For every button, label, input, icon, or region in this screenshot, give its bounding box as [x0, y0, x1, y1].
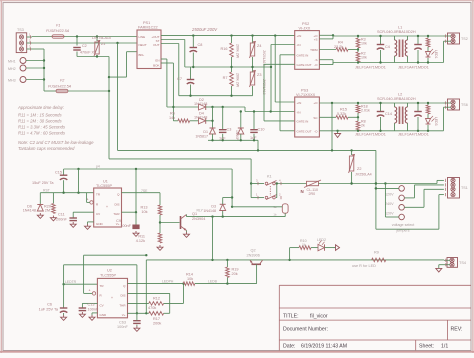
svg-text:2k: 2k [361, 124, 365, 128]
capacitor C10 [253, 112, 255, 130]
resistor R20 [52, 193, 54, 204]
ground C11 [72, 222, 74, 224]
svg-text:TRIM: TRIM [310, 48, 318, 52]
wire PS2 -S -O [319, 59, 333, 61]
svg-text:10k: 10k [361, 56, 367, 60]
svg-text:470nF X: 470nF X [80, 51, 94, 55]
svg-text:C15: C15 [55, 171, 62, 175]
wire CL-110 to voltage select [319, 183, 438, 185]
svg-text:C13: C13 [88, 303, 95, 307]
svg-text:GATE OUT: GATE OUT [297, 63, 312, 67]
wire bus1 line to relay [118, 149, 376, 151]
IC U2 TLC555P [97, 278, 127, 317]
wire TS3 pin3 down [32, 48, 44, 50]
svg-text:MH3: MH3 [8, 79, 16, 83]
svg-text:-S: -S [315, 58, 318, 62]
svg-text:2R0: 2R0 [309, 192, 316, 196]
diode D6 [39, 193, 41, 205]
svg-text:fil_vicor: fil_vicor [310, 313, 328, 319]
capacitor C5 [417, 36, 419, 45]
svg-text:F2: F2 [60, 79, 64, 83]
svg-text:Note: C2 and C7 MUST be low-le: Note: C2 and C7 MUST be low-leakage [18, 140, 94, 145]
wire PS2 GATE OUT [264, 63, 295, 65]
wire relay drop to J4 [384, 184, 386, 218]
jumper pad J4 120V [399, 214, 405, 220]
svg-text:GATE OUT: GATE OUT [297, 130, 312, 134]
connector TS1 [448, 178, 460, 199]
svg-text:C10: C10 [258, 128, 265, 132]
relay K1 contact 2 [251, 197, 264, 199]
ground C9 [135, 231, 137, 233]
wire PS3 -O vertical down to relay bus [331, 103, 333, 150]
svg-text:+: + [89, 289, 91, 293]
svg-text:R13: R13 [141, 206, 148, 210]
capacitor C14 [380, 103, 382, 112]
svg-text:100nF: 100nF [88, 308, 99, 312]
svg-text:RST: RST [43, 189, 50, 193]
svg-text:R4: R4 [338, 41, 343, 45]
svg-text:R15: R15 [340, 108, 347, 112]
svg-text:Sheet:: Sheet: [419, 343, 434, 349]
svg-text:100nF: 100nF [120, 224, 131, 228]
svg-text:R7: R7 [223, 76, 228, 80]
wire PS2 +IN vertical to PS3 [274, 36, 276, 102]
wire MH3 [26, 79, 44, 81]
mounting hole MH1 [20, 58, 26, 64]
wire p4 net main [146, 259, 444, 261]
IC PS3 VI-71XX [295, 97, 320, 137]
wire coil feed [232, 206, 282, 208]
ground U2 [91, 315, 93, 317]
svg-text:200k 2W: 200k 2W [236, 44, 240, 59]
wire bus1 to J1 [375, 187, 377, 189]
svg-text:THR: THR [113, 212, 120, 216]
wire TS4 stubs [444, 259, 450, 261]
ground U1 [87, 224, 89, 226]
svg-text:use R for LED: use R for LED [352, 264, 376, 268]
ground TS4 [436, 268, 442, 272]
wire PS3 output rail bottom [338, 130, 444, 132]
svg-text:470k: 470k [148, 306, 156, 310]
svg-text:2M: 2M [45, 209, 50, 213]
wire LEDTR riser [63, 265, 65, 308]
svg-text:LEDPH: LEDPH [162, 280, 174, 284]
wire J3 to TS1 pin3 [404, 206, 424, 208]
wire U1 CV / capacitor C11 [73, 211, 94, 213]
wire R13 R11 junction [159, 215, 161, 233]
svg-text:+: + [111, 296, 113, 300]
capacitor C16 [417, 103, 419, 112]
capacitor C3 [222, 107, 224, 130]
resistor R6 led series [427, 36, 429, 38]
svg-text:Tantalum caps recommended: Tantalum caps recommended [18, 146, 75, 151]
resistor R5 [173, 120, 178, 122]
varistor Z4 [252, 36, 254, 43]
svg-text:BOK: BOK [153, 63, 159, 67]
svg-text:FUSEH/22.5A: FUSEH/22.5A [46, 29, 70, 33]
wire RLY net [187, 216, 286, 218]
svg-text:R17: R17 [153, 317, 160, 321]
wire LEDB net [195, 283, 257, 285]
wire D4 tie [206, 120, 213, 122]
wire bus2 drop to contacts [250, 159, 252, 198]
svg-text:LEDTR: LEDTR [65, 280, 77, 284]
svg-text:2500uF 200V: 2500uF 200V [191, 27, 218, 32]
wire PS1 ST [161, 39, 185, 41]
svg-text:REV:: REV: [451, 327, 463, 333]
svg-text:1N5817: 1N5817 [195, 135, 208, 139]
svg-text:20k: 20k [232, 272, 238, 276]
wire D2 out [206, 106, 213, 108]
svg-text:TLC555P: TLC555P [96, 184, 113, 188]
svg-text:JELF1A471MDO1: JELF1A471MDO1 [355, 133, 386, 137]
svg-text:10k: 10k [361, 42, 367, 46]
wire U2 reset loop [84, 292, 93, 294]
svg-text:+: + [106, 205, 108, 209]
svg-text:4.12k: 4.12k [136, 239, 145, 243]
svg-text:MH1: MH1 [8, 60, 16, 64]
svg-text:D1: D1 [203, 130, 208, 134]
wire PS2 GATE IN [280, 54, 295, 56]
svg-text:1N4148: 1N4148 [194, 102, 207, 106]
wire aux ground rail [208, 139, 258, 141]
varistor Z2 [349, 156, 353, 171]
svg-text:C7: C7 [177, 77, 182, 81]
capacitor C7 [190, 67, 192, 80]
wire U2 GND [92, 312, 97, 314]
resistor R18 [357, 103, 359, 105]
LED LED3 [426, 119, 431, 125]
svg-text:+IN: +IN [297, 34, 302, 38]
jumper pad J1 120V [399, 186, 405, 192]
connector TS4 [447, 258, 458, 268]
svg-text:TS6: TS6 [461, 103, 468, 107]
wire R10 branch [289, 248, 291, 260]
wire line from TS3 pin1 to fuse F1 [32, 36, 52, 38]
wire R12 riser to Q net [183, 284, 185, 304]
wire PS3 +O rail [319, 102, 443, 104]
IC PS2 VI-JXX [295, 31, 320, 70]
resistor R7 [231, 67, 233, 72]
svg-text:TITLE:: TITLE: [283, 313, 299, 319]
svg-text:1N4148: 1N4148 [194, 116, 207, 120]
svg-text:R14: R14 [186, 273, 193, 277]
wire Q2 base drop [256, 264, 258, 283]
resistor R10 [299, 246, 311, 250]
svg-text:DIS: DIS [114, 202, 119, 206]
wire U1 THR [122, 211, 137, 213]
wire PS2 TRIM / resistor R4 [319, 49, 336, 51]
svg-text:Z2: Z2 [357, 167, 361, 171]
svg-text:C2: C2 [82, 44, 87, 48]
title block [279, 285, 471, 350]
svg-text:5.32k: 5.32k [337, 112, 346, 116]
svg-text:TS2: TS2 [461, 37, 468, 41]
svg-text:PS1: PS1 [143, 21, 150, 25]
svg-text:CV: CV [100, 303, 104, 307]
svg-text:GND: GND [96, 222, 104, 226]
resistor R13 [159, 193, 161, 205]
svg-text:+S: +S [314, 38, 318, 42]
ground LED2 [325, 247, 334, 249]
svg-text:240V: 240V [385, 202, 394, 206]
wire bottom loop to TS1 pin4 [376, 228, 439, 230]
svg-text:JV20LA10: JV20LA10 [262, 50, 266, 66]
wire PS1 EN [161, 58, 167, 60]
svg-text:BKL: BKL [139, 53, 145, 57]
diode D2 [205, 104, 207, 110]
wire PS3 SC trim resistor R15 [319, 116, 336, 118]
wire F2 to vertical [68, 90, 109, 92]
resistor R3 [357, 36, 359, 38]
svg-text:CV: CV [96, 212, 100, 216]
svg-text:R19: R19 [232, 268, 239, 272]
svg-text:THR: THR [119, 303, 126, 307]
IC U1 TLC555P [94, 188, 122, 227]
svg-text:TS3: TS3 [17, 28, 24, 32]
relay K1 mechanical link [269, 186, 271, 196]
svg-text:10k: 10k [187, 277, 193, 281]
svg-text:R9: R9 [374, 251, 379, 255]
diode D5 [240, 112, 242, 129]
svg-text:voltage select: voltage select [392, 223, 415, 227]
wire U2 DIS [128, 292, 170, 294]
svg-text:10k: 10k [141, 210, 147, 214]
svg-text:K1: K1 [267, 175, 272, 179]
resistor R17 [149, 312, 164, 316]
svg-text:OUT: OUT [153, 43, 160, 47]
wire PS2 output rail bottom [333, 62, 444, 64]
wire F1 to PS1 LINE [64, 36, 137, 38]
wire TS3 pin2 to PS1 NEUT [32, 42, 137, 44]
wire bus3 to THR [135, 169, 137, 212]
wire aux jog to PS3 -IN [244, 107, 246, 112]
svg-text:JV250LA4: JV250LA4 [355, 173, 372, 177]
thermistor RT1 CL-110 [307, 181, 319, 185]
svg-text:1b: 1b [273, 213, 277, 217]
svg-text:JELF1A471MDO1: JELF1A471MDO1 [398, 66, 429, 70]
varistor Z3 [252, 67, 254, 72]
wire U2 Q output / LEDPH [128, 283, 184, 285]
wire neutral vertical drop [117, 43, 119, 150]
svg-text:100nF: 100nF [117, 325, 128, 329]
U1 reset bubble [90, 201, 93, 204]
svg-text:Q1: Q1 [192, 212, 197, 216]
svg-text:VI-JXX: VI-JXX [299, 27, 311, 31]
svg-text:TS4: TS4 [459, 261, 466, 265]
svg-text:1N4148: 1N4148 [203, 209, 216, 213]
wire to Q1 base [160, 222, 180, 224]
capacitor C8 [192, 36, 194, 48]
svg-text:23.2k: 23.2k [334, 45, 343, 49]
wire TS6 pin stubs [444, 102, 451, 104]
svg-text:R5: R5 [170, 112, 175, 116]
wire U1 GND [88, 221, 94, 223]
capacitor C9 [135, 212, 137, 224]
LED LED1 [426, 52, 431, 58]
svg-text:L2: L2 [398, 93, 402, 97]
svg-text:GATE IN: GATE IN [297, 120, 309, 124]
wire D3 top [223, 197, 232, 199]
svg-text:1/1: 1/1 [441, 343, 448, 349]
svg-text:7SE: 7SE [141, 189, 148, 193]
svg-text:Z3: Z3 [257, 73, 261, 77]
svg-text:NEUT: NEUT [139, 43, 147, 47]
svg-text:-IN: -IN [297, 110, 301, 114]
ground PS3 -O [337, 131, 339, 134]
wire U2 CV / capacitor C13 [82, 302, 97, 304]
wire bus3 to RST [78, 169, 80, 193]
wire EN aux row [167, 106, 199, 108]
resistor R8 [357, 113, 359, 121]
svg-text:1k: 1k [302, 243, 306, 247]
svg-text:1N4148: 1N4148 [23, 209, 36, 213]
capacitor C4 [380, 36, 382, 45]
svg-text:SCR-040-0RBA10D2H: SCR-040-0RBA10D2H [377, 30, 416, 34]
svg-text:6/19/2019 11:43 AM: 6/19/2019 11:43 AM [301, 343, 347, 349]
svg-text:SCR-040-0RBA10D2H: SCR-040-0RBA10D2H [377, 97, 416, 101]
svg-text:LINE: LINE [139, 35, 146, 39]
wire U2 V+ riser [128, 312, 149, 314]
wire Q1 collector [186, 215, 188, 217]
mounting hole MH3 [20, 77, 26, 83]
wire PS2 output rail top [333, 35, 444, 37]
wire PS1 -OUT [161, 43, 179, 45]
svg-text:C8: C8 [198, 43, 203, 47]
svg-text:TS1: TS1 [461, 186, 468, 190]
ground C6 [63, 313, 65, 315]
svg-text:R11 = 3.3M : 45 Seconds: R11 = 3.3M : 45 Seconds [18, 125, 66, 130]
capacitor C2 [76, 37, 78, 46]
wire MH1 [26, 60, 44, 62]
svg-text:C63: C63 [119, 321, 126, 325]
wire mid rail [185, 66, 271, 68]
ground R11 [159, 245, 161, 247]
wire riser to C63 [136, 265, 138, 314]
wire TS3 pin1 stubs [27, 36, 33, 38]
wire PS2 -IN chain [271, 44, 295, 46]
svg-text:VI-71XXXX: VI-71XXXX [296, 93, 316, 97]
svg-text:14k: 14k [169, 116, 175, 120]
wire coil to RLY [284, 213, 286, 216]
wire bus2 neutral [109, 158, 251, 160]
svg-text:R11 = 2M : 30 Seconds: R11 = 2M : 30 Seconds [18, 119, 62, 124]
resistor R11 [158, 233, 162, 243]
diode D1 zener [210, 127, 216, 129]
svg-text:PS3: PS3 [301, 89, 308, 93]
svg-text:L1: L1 [398, 26, 402, 30]
svg-text:+IN: +IN [297, 101, 302, 105]
capacitor C15 [63, 169, 65, 175]
jumper pad J2 240V [399, 195, 405, 201]
svg-text:Z1: Z1 [101, 42, 105, 46]
wire bottom rail [179, 95, 253, 97]
svg-text:R12: R12 [153, 297, 160, 301]
svg-text:R11 = 1M : 15 Seconds: R11 = 1M : 15 Seconds [18, 113, 62, 118]
wire U1 Q output [122, 192, 161, 194]
svg-text:V+: V+ [122, 313, 126, 317]
U2 reset bubble [92, 292, 95, 295]
resistor R21 led series [427, 103, 429, 105]
svg-text:-IN: -IN [297, 43, 301, 47]
connector TS2 [448, 33, 460, 44]
svg-text:LV275LA10: LV275LA10 [92, 36, 111, 40]
svg-text:PS2: PS2 [302, 22, 309, 26]
wire BKL return [109, 76, 127, 78]
svg-text:C4: C4 [385, 45, 390, 49]
wire J2 to TS1 pin2 [404, 197, 414, 199]
svg-text:FARM1C22: FARM1C22 [138, 26, 158, 30]
svg-text:200k 2W: 200k 2W [236, 73, 240, 88]
svg-text:U2: U2 [107, 269, 112, 273]
svg-text:R11: R11 [138, 235, 145, 239]
svg-text:R16: R16 [221, 47, 228, 51]
svg-text:1N60P: 1N60P [235, 130, 239, 141]
svg-text:Z4: Z4 [257, 44, 261, 48]
svg-text:GATE IN: GATE IN [297, 53, 309, 57]
wire bus1 drop to jumpers [375, 150, 377, 229]
svg-text:GND: GND [100, 313, 108, 317]
capacitor C63 [133, 320, 141, 322]
ground Q1 emitter [186, 231, 188, 233]
resistor R14 [183, 282, 195, 286]
svg-text:2.01k: 2.01k [361, 109, 370, 113]
page outer pink border [0, 0, 2, 353]
svg-text:C3: C3 [227, 128, 232, 132]
svg-text:R11 = 4.7M : 60 Seconds: R11 = 4.7M : 60 Seconds [18, 131, 66, 136]
jumper pad J3 [399, 205, 405, 211]
wire U2 THR / resistor R12 [128, 302, 149, 304]
svg-text:LED3: LED3 [434, 117, 438, 126]
svg-text:LED1: LED1 [434, 50, 438, 59]
wire bus3 drop to coil [231, 169, 233, 207]
svg-text:120V: 120V [385, 192, 394, 196]
ground C13 [81, 312, 83, 314]
svg-text:D3: D3 [211, 205, 216, 209]
svg-text:Date:: Date: [283, 343, 295, 349]
wire down to F2 line [108, 57, 110, 159]
svg-text:2N3904: 2N3904 [192, 217, 205, 221]
svg-text:Document Number:: Document Number: [283, 327, 328, 333]
svg-text:C9: C9 [116, 219, 121, 223]
svg-text:DIS: DIS [120, 293, 125, 297]
diode D4 [205, 118, 207, 124]
svg-text:1uF 25V Ta: 1uF 25V Ta [39, 308, 59, 312]
svg-text:Q2: Q2 [251, 249, 256, 253]
wire MH2 [26, 67, 44, 69]
svg-text:FUSEH/22.5A: FUSEH/22.5A [48, 85, 72, 89]
wire RST node [40, 192, 93, 194]
svg-text:p4: p4 [96, 165, 100, 169]
wire PS3 -O to ground [319, 130, 337, 132]
resistor R19 [226, 260, 228, 267]
capacitor C6 [60, 307, 68, 309]
svg-text:120V: 120V [385, 212, 394, 216]
svg-text:JELF1A471MDO1: JELF1A471MDO1 [355, 66, 386, 70]
wire PS1 BOK [161, 62, 173, 64]
IC PS1 FARM1C22 [137, 30, 161, 69]
svg-text:N: N [301, 189, 304, 194]
wire U1 R tie [87, 201, 90, 203]
relay K1 coil [282, 204, 288, 213]
svg-text:LED2: LED2 [317, 238, 326, 242]
ground D6 [39, 213, 41, 215]
LED LED2 [311, 247, 318, 249]
connector TS6 [448, 99, 460, 110]
varistor Z1 [96, 37, 98, 42]
svg-text:200nF: 200nF [56, 218, 67, 222]
svg-text:C11: C11 [58, 213, 65, 217]
